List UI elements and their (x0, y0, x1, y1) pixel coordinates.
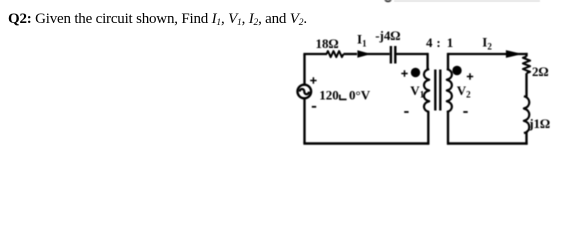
title text (8, 11, 307, 28)
resistor 2ohm (523, 56, 530, 73)
wire: right rail top stub (525, 53, 527, 57)
wire: left rail (303, 54, 305, 144)
wire: secondary top (448, 53, 528, 55)
transformer primary coil (424, 69, 429, 112)
svg-text:4: 4 (426, 35, 433, 50)
transformer core line right (439, 70, 441, 111)
wire: secondary bottom lead (447, 112, 449, 145)
capacitor -j4ohm plate left (390, 46, 392, 64)
svg-text::: : (436, 35, 440, 50)
wire: primary bottom lead (427, 112, 429, 145)
inductor j1ohm (524, 96, 529, 133)
wire: resistor to arrow (344, 53, 358, 55)
transformer secondary coil (447, 69, 452, 112)
svg-text:18Ω: 18Ω (316, 36, 339, 51)
current arrow I2 (506, 50, 522, 58)
plus V1 (401, 70, 407, 76)
capacitor -j4ohm plate right (394, 46, 396, 64)
current arrow I1 (357, 50, 371, 58)
cut-off grey rule top right (394, 0, 540, 2)
wire: secondary top lead (447, 53, 449, 70)
svg-text:V1: V1 (410, 83, 424, 100)
cut-off circle artifact top right (385, 0, 392, 1)
svg-text:120: 120 (319, 88, 339, 103)
angle symbol in source label (340, 95, 347, 100)
minus V1 (404, 111, 408, 113)
svg-text:1: 1 (447, 35, 454, 50)
svg-text:0°V: 0°V (349, 88, 371, 103)
svg-text:V2: V2 (457, 83, 471, 100)
wire: primary top left segment (303, 53, 327, 55)
plus source (310, 77, 316, 83)
dot secondary (452, 66, 461, 75)
wire: primary top lead down (426, 53, 428, 70)
svg-text:I1: I1 (357, 32, 367, 49)
resistor 18ohm (327, 51, 344, 57)
wire: right rail middle (525, 73, 527, 96)
wire: arrow to capacitor (366, 53, 390, 55)
sine wave inside source (300, 89, 309, 94)
minus V2 (463, 111, 467, 113)
wire: capacitor to transformer primary (396, 53, 428, 55)
svg-text:I2: I2 (482, 35, 492, 52)
minus source (312, 106, 316, 108)
dot primary (411, 68, 420, 77)
plus V2 (467, 73, 473, 79)
svg-text:j1Ω: j1Ω (528, 116, 550, 131)
voltage source circle (298, 85, 312, 99)
wire: primary bottom (303, 142, 429, 144)
wire: right rail bottom stub (525, 133, 527, 145)
svg-text:-j4Ω: -j4Ω (375, 28, 400, 43)
svg-text:2Ω: 2Ω (532, 64, 549, 79)
transformer core line left (434, 70, 436, 111)
wire: secondary bottom (447, 142, 528, 144)
